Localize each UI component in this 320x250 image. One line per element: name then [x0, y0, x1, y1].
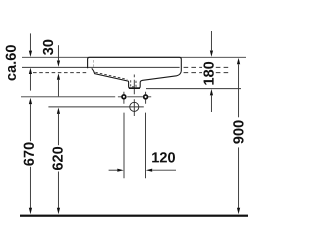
- drain bottom emphasis: [129, 87, 140, 89]
- dim 620 arrow up at drain axis: [57, 108, 60, 114]
- dim 670 shaft upper: [29, 74, 31, 91]
- drain center axis line: [48, 106, 143, 108]
- dim 180 upper shaft: [210, 31, 212, 50]
- fixing hole left (donut): [122, 95, 126, 99]
- fixing hole left crosshair ticks: [123, 92, 125, 104]
- label 120: [152, 152, 175, 162]
- dim 180 arrow down: [210, 51, 213, 57]
- dashed line 30-level left: [33, 72, 87, 74]
- drain outlet reference line: [146, 88, 241, 90]
- dim 120 left shaft: [109, 169, 118, 171]
- dim 670 arrow up at holes line: [29, 98, 32, 104]
- dim 620 arrow down at floor: [57, 208, 60, 214]
- reference line top (rim top level): [22, 56, 246, 58]
- sink inner drain cup dashed: [131, 80, 136, 87]
- dim 900 arrow down at floor: [237, 208, 240, 214]
- dim 900 shaft upper: [238, 64, 240, 117]
- dim 620 shaft upper: [57, 80, 59, 97]
- extension line hole right down: [145, 113, 147, 179]
- label 900: [233, 120, 243, 143]
- fixing holes axis line: [21, 96, 151, 98]
- dim 670 shaft lower: [29, 167, 31, 208]
- dim ca.60 arrow down: [29, 51, 32, 57]
- sink rim outline: [88, 57, 182, 71]
- dim 120 arrow right: [117, 169, 123, 172]
- reference line rim bottom (solid left part): [22, 66, 180, 68]
- dim 620 shaft lower: [57, 172, 59, 209]
- drain circle: [130, 102, 139, 111]
- dim 120 arrow left: [146, 169, 152, 172]
- dim ca.60 upper shaft: [29, 33, 31, 50]
- dim 180 arrow up at drain outlet line: [210, 89, 213, 95]
- dashed line 30-level right: [184, 72, 230, 74]
- label 30: [43, 40, 53, 55]
- faucet hole dashed marker: [93, 60, 95, 67]
- label 670: [24, 142, 34, 165]
- dim 120 right shaft: [152, 169, 176, 171]
- dim 30 arrow up: [57, 73, 60, 79]
- floor line: [20, 215, 248, 217]
- dim 670 shaft middle: [29, 104, 31, 141]
- dim 670 arrow down at floor: [29, 208, 32, 214]
- label 620: [52, 147, 62, 170]
- fixing hole right crosshair ticks: [145, 92, 147, 104]
- dim 180 lower shaft: [210, 95, 212, 112]
- dim ca.60 arrow up: [29, 68, 32, 74]
- dim 900 arrow up at rim top: [237, 58, 240, 64]
- sink inner surface dashed slope: [95, 72, 127, 79]
- reference line rim bottom dashed right: [184, 66, 230, 68]
- dim 30 arrow down: [57, 61, 60, 67]
- dim 900 shaft lower: [238, 147, 240, 208]
- dim 30 upper shaft: [57, 45, 59, 60]
- dim 620 shaft middle: [57, 114, 59, 145]
- sink bowl underside outline: [92, 68, 182, 88]
- fixing hole right (donut): [144, 95, 148, 99]
- extension line hole left down: [123, 113, 125, 179]
- label 180: [203, 62, 213, 85]
- drain vertical centerline: [133, 75, 135, 117]
- label ca.60: [6, 45, 16, 80]
